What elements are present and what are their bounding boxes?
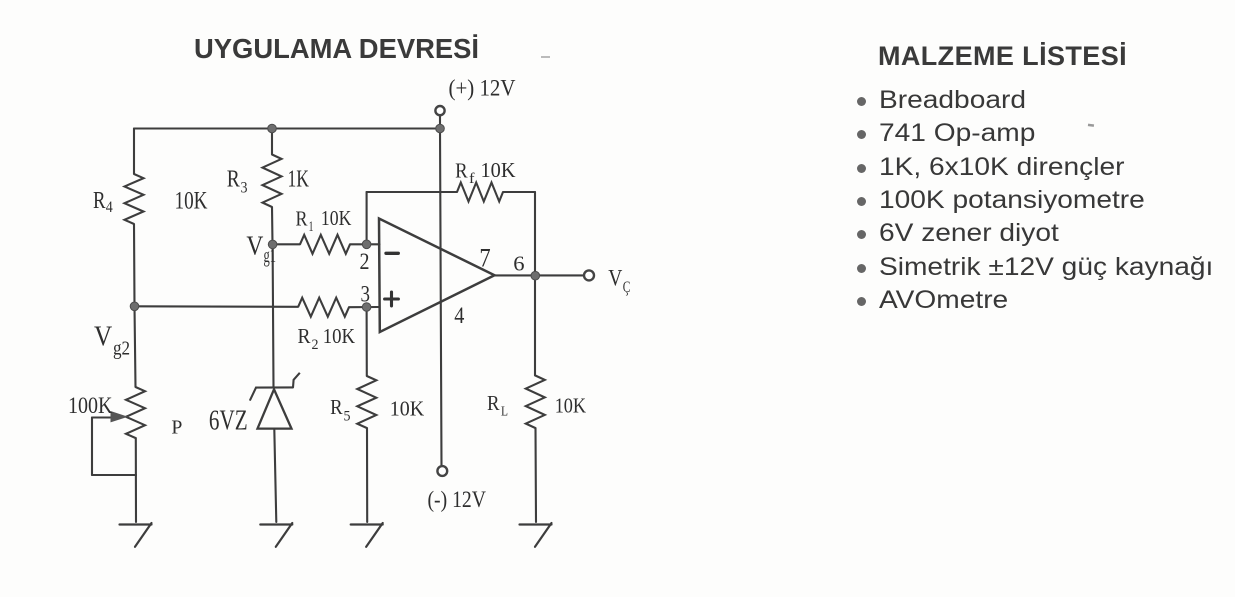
svg-text:1: 1 — [309, 219, 314, 235]
svg-text:R: R — [93, 188, 106, 214]
svg-text:4: 4 — [454, 303, 465, 328]
svg-text:g2: g2 — [113, 338, 130, 360]
svg-text:P: P — [171, 417, 182, 439]
svg-text:R: R — [296, 207, 309, 231]
svg-text:6: 6 — [513, 251, 524, 275]
svg-text:g1: g1 — [264, 245, 277, 267]
svg-text:R: R — [487, 391, 500, 415]
svg-text:2: 2 — [312, 337, 319, 353]
svg-text:(-) 12V: (-) 12V — [428, 487, 487, 512]
svg-text:10K: 10K — [555, 394, 587, 418]
svg-text:R: R — [330, 395, 343, 419]
svg-text:5: 5 — [344, 409, 351, 425]
svg-text:6VZ: 6VZ — [209, 406, 248, 437]
svg-text:V: V — [246, 231, 263, 261]
svg-text:7: 7 — [479, 244, 490, 273]
svg-text:V: V — [608, 266, 622, 291]
svg-text:R: R — [227, 166, 240, 192]
svg-text:R: R — [298, 324, 312, 348]
svg-text:10K: 10K — [390, 397, 425, 421]
svg-text:100K: 100K — [68, 393, 113, 419]
svg-text:R: R — [455, 159, 468, 183]
svg-text:10K: 10K — [321, 206, 352, 230]
svg-text:3: 3 — [241, 180, 248, 197]
svg-text:f: f — [469, 171, 475, 187]
svg-text:1K: 1K — [288, 166, 310, 192]
svg-text:10K: 10K — [175, 188, 208, 215]
svg-text:Ç: Ç — [623, 279, 631, 296]
svg-text:10K: 10K — [481, 158, 516, 182]
svg-text:10K: 10K — [323, 324, 356, 348]
svg-text:2: 2 — [360, 249, 370, 274]
svg-text:(+) 12V: (+) 12V — [449, 75, 516, 100]
svg-text:V: V — [94, 322, 112, 353]
svg-text:L: L — [501, 405, 508, 420]
svg-text:4: 4 — [106, 199, 113, 216]
svg-text:3: 3 — [361, 282, 371, 307]
